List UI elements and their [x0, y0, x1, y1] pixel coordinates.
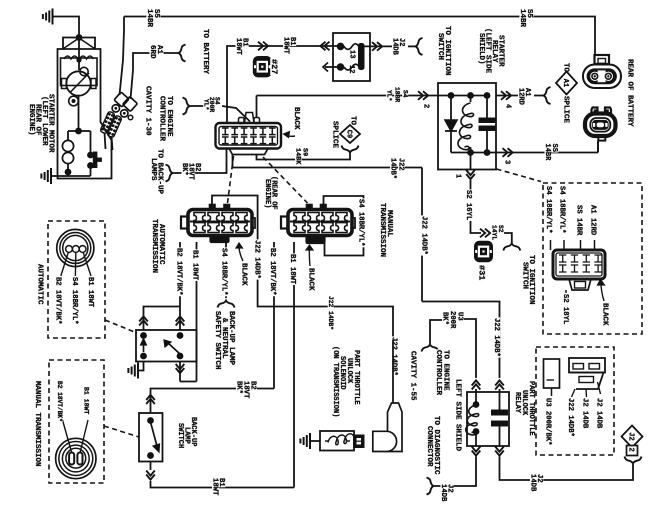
- label AUTOMATIC TRANSMISSION: [157, 223, 166, 265]
- svg-text:B1 18WT: B1 18WT: [191, 250, 199, 281]
- svg-text:3: 3: [503, 160, 511, 164]
- connector trans-2 bottom tab: [307, 237, 325, 244]
- wire S9 14BK to C9 splice: [257, 152, 351, 160]
- wire U3 to PTU relay: [464, 319, 476, 378]
- label A1 6RD: [155, 44, 164, 54]
- PTU relay coil branch: [475, 392, 477, 402]
- ignition connector lead stubs: [550, 240, 552, 250]
- label BACK-UP LAMP & NEUTRAL SAFETY SWITCH: [227, 310, 236, 365]
- svg-text:J22: J22: [397, 158, 405, 171]
- pin label 1: [454, 173, 462, 178]
- label B1 18WT bottom: [217, 477, 225, 487]
- svg-text:B2 18VT/BK*: B2 18VT/BK*: [175, 248, 183, 295]
- starter motor cable lug terminals: [114, 92, 129, 107]
- ground G3 NSS: [137, 363, 139, 379]
- hook J2 to ignition switch: [416, 38, 423, 55]
- svg-text:LEFT SIDE SHIELD: LEFT SIDE SHIELD: [454, 379, 462, 452]
- label J2 14DB right: [535, 473, 543, 483]
- label SS 14BR ign: [575, 204, 583, 236]
- svg-text:MANUAL TRANSMISSION: MANUAL TRANSMISSION: [33, 381, 41, 467]
- NSS left branch: [144, 307, 181, 331]
- label S2 18YL: [561, 293, 569, 325]
- solenoid coil: [325, 440, 328, 442]
- svg-text:J22 14DB*: J22 14DB*: [420, 216, 428, 255]
- wire S4 18BR YL C101 to starter relay: [257, 95, 439, 97]
- NSS output chevrons: [176, 364, 185, 369]
- svg-text:BK*: BK*: [441, 312, 449, 325]
- label J22 14DB* mid: [327, 295, 334, 330]
- pin-field tail wires: [105, 133, 106, 150]
- label BLACK trans-1: [240, 262, 249, 286]
- svg-text:B1 18WT: B1 18WT: [86, 277, 94, 308]
- wire S2 16YL: [471, 180, 482, 233]
- label S4 200R YL*: [214, 96, 221, 105]
- U3 connector rect: [544, 359, 560, 388]
- label J2 14DB ptu2: [595, 397, 603, 429]
- relay junction dots top: [448, 92, 455, 99]
- label PART THROTTLE UNLOCK SOLENOID (ON TRANSMISSION): [352, 349, 360, 405]
- svg-text:14DB: 14DB: [391, 38, 399, 56]
- splice #27: [254, 57, 271, 76]
- wire S4 18BR/YL trans-1 stub: [225, 242, 227, 298]
- label B1 18WT ring: [86, 276, 94, 308]
- svg-text:J2 14DB: J2 14DB: [581, 398, 589, 429]
- label B1 18WT trans-1: [191, 249, 199, 281]
- svg-text:14BR: 14BR: [145, 9, 153, 28]
- relay bottom bus: [451, 152, 496, 154]
- label S4 18BR/YL* ring: [70, 276, 78, 325]
- label CAVITY 1-55: [409, 350, 418, 401]
- label LEFT SIDE SHIELD: [454, 378, 463, 451]
- svg-text:SHIELD): SHIELD): [477, 33, 485, 65]
- wire coil bottom to ground: [67, 172, 69, 176]
- svg-text:18WT: 18WT: [282, 37, 290, 54]
- solenoid contact bar: [93, 152, 97, 168]
- hook to battery: [179, 45, 186, 62]
- svg-text:18WT: 18WT: [211, 478, 219, 496]
- automatic ring connector: [57, 229, 94, 266]
- wire S2 to ignition hook: [504, 233, 512, 243]
- relay coil: [470, 96, 472, 103]
- dashed box PTU relay connectors: [536, 347, 614, 455]
- label MANUAL TRANSMISSION: [33, 380, 42, 467]
- NSS swing arm: [167, 342, 180, 354]
- wire J22 down to relay branch: [421, 168, 423, 302]
- ground G1 top-left: [52, 9, 54, 25]
- starter motor field/brush inner box: [61, 58, 98, 86]
- dashed link C101 to automatic connector: [228, 156, 234, 203]
- pin label 3: [503, 159, 511, 164]
- neutral safety switch box: [136, 330, 197, 362]
- splice A1 marker: [562, 62, 571, 72]
- splice C9 marker: [349, 115, 358, 125]
- label J22 14DB*: [397, 157, 405, 171]
- hook C9: [342, 146, 359, 153]
- hook to diagnostic connector: [427, 478, 434, 495]
- svg-text:YL*: YL*: [203, 99, 210, 111]
- svg-text:S2 18YL: S2 18YL: [561, 294, 569, 324]
- label J2 14DB: [397, 37, 405, 47]
- svg-text:RELAY: RELAY: [513, 392, 521, 414]
- dashed link automatic to NSS: [105, 320, 137, 333]
- wire armature to solenoid junction: [78, 96, 80, 131]
- PTU relay output chevrons: [472, 446, 481, 451]
- svg-text:CONTROLLER: CONTROLLER: [158, 96, 166, 142]
- svg-text:2: 2: [422, 104, 430, 108]
- connector C101 pins: [222, 128, 229, 135]
- dashed box ignition switch connector: [543, 183, 642, 334]
- wire pin 3 SS 14BR: [496, 152, 598, 154]
- svg-text:TO BATTERY: TO BATTERY: [201, 29, 209, 75]
- svg-text:SPLICE: SPLICE: [331, 121, 339, 149]
- svg-text:CONNECTOR: CONNECTOR: [425, 426, 433, 467]
- svg-text:J22 14DB*: J22 14DB*: [253, 240, 261, 279]
- svg-text:(ON TRANSMISSION): (ON TRANSMISSION): [331, 346, 339, 417]
- wire junction to contact: [79, 130, 91, 132]
- svg-text:BK*: BK*: [235, 381, 243, 394]
- label U3 200R BK*: [456, 311, 464, 321]
- wire J22 over trans-1: [212, 196, 393, 341]
- svg-text:#27: #27: [269, 59, 279, 74]
- svg-text:12: 12: [347, 65, 355, 73]
- starter motor connector pin-field strips: [100, 111, 115, 134]
- dashed link relay to ignition box: [497, 169, 542, 182]
- svg-text:14BK: 14BK: [294, 148, 302, 165]
- starter motor lower brush circle: [69, 96, 79, 106]
- label TO ENGINE CONTROLLER: [442, 349, 451, 391]
- svg-text:14YL: 14YL: [491, 225, 498, 240]
- svg-text:CONTROLLER: CONTROLLER: [434, 350, 442, 396]
- PTU connector leaders: [572, 389, 576, 397]
- battery connector B1 (oval): [595, 55, 610, 64]
- wire pin 4 A1 12RD: [496, 95, 518, 97]
- junction dot on starter motor terminal: [76, 34, 83, 41]
- label S2 16YL: [464, 189, 472, 221]
- wire NSS to B1: [179, 362, 181, 382]
- inline connectors above PTU relay: [472, 380, 481, 385]
- fuse terminal dots: [337, 43, 345, 51]
- hook U3 to engine controller: [422, 345, 439, 352]
- svg-text:SAFETY SWITCH: SAFETY SWITCH: [213, 311, 221, 370]
- label J22 14DB* to solenoid: [390, 336, 398, 376]
- solenoid contact dots: [87, 152, 94, 159]
- label S9 14BK: [301, 147, 309, 156]
- starter solenoid pull-in coil: [62, 140, 73, 151]
- label J2 14DB diag: [446, 483, 454, 493]
- svg-text:REAR OF BATTERY: REAR OF BATTERY: [626, 59, 634, 127]
- NSS arrow contact: [143, 342, 145, 352]
- backup switch output: [150, 462, 152, 471]
- battery connector B2 bottom tab: [598, 136, 605, 141]
- backup switch arm: [151, 422, 158, 448]
- label AUTOMATIC: [36, 263, 45, 305]
- svg-text:S4 18BR/YL*: S4 18BR/YL*: [558, 186, 566, 233]
- label J22 14DB* inline 2: [492, 317, 500, 357]
- junction dot solenoid: [75, 128, 82, 135]
- connector trans-1 bottom tab: [211, 236, 229, 243]
- svg-text:18BR: 18BR: [394, 87, 401, 102]
- svg-text:ENGINE): ENGINE): [263, 179, 271, 208]
- label BLACK ignition: [601, 302, 610, 326]
- svg-text:B1 18WT: B1 18WT: [83, 387, 90, 414]
- solenoid terminal block: [354, 436, 364, 448]
- label B1 18WT manual: [83, 386, 90, 415]
- label #27: [269, 58, 279, 75]
- label J22 14DB* on trans-1 wire: [253, 239, 261, 279]
- NSS contact dots: [140, 332, 147, 339]
- starter motor brush coils: [64, 56, 78, 59]
- hook S4 200R to engine controller: [183, 98, 190, 115]
- svg-text:A1 12RD: A1 12RD: [589, 205, 597, 236]
- svg-text:AUTOMATIC: AUTOMATIC: [36, 264, 44, 305]
- svg-text:4: 4: [504, 104, 512, 108]
- wire B2 18VT BK to C101: [173, 149, 227, 173]
- svg-text:TRANSMISSION: TRANSMISSION: [378, 203, 386, 257]
- svg-text:J2 14DB: J2 14DB: [595, 398, 603, 429]
- battery connector B2 (square): [592, 108, 598, 116]
- svg-text:6RD: 6RD: [148, 45, 156, 59]
- PTU relay contact branch: [499, 392, 501, 410]
- wire B1 18WT to fuse: [227, 46, 340, 123]
- connector trans-2 (manual) body: [288, 210, 352, 236]
- label BLACK C101: [292, 106, 301, 130]
- wire B1 18WT bottom run: [151, 481, 295, 488]
- connector trans-2 top tabs: [307, 205, 313, 211]
- svg-text:ENGINE): ENGINE): [27, 104, 35, 136]
- label (REAR OF ENGINE): [270, 175, 278, 210]
- label A1 12RD ign: [589, 204, 597, 236]
- svg-text:S4 18BR/YL*: S4 18BR/YL*: [544, 186, 552, 233]
- svg-text:S4: S4: [402, 90, 409, 98]
- svg-text:SPLICE: SPLICE: [562, 96, 570, 124]
- svg-text:SWITCH: SWITCH: [521, 262, 529, 289]
- svg-text:1: 1: [454, 174, 462, 178]
- label S4 18BR/YL* loop: [357, 198, 365, 247]
- pin label 2: [422, 103, 430, 108]
- wire B2 18VT/BK trans-2 down: [273, 242, 275, 389]
- label A1 12RD: [523, 87, 531, 97]
- svg-text:TRANSMISSION: TRANSMISSION: [150, 219, 158, 273]
- label TO IGNITION SWITCH: [443, 25, 452, 76]
- svg-text:13: 13: [348, 50, 356, 58]
- svg-text:C9: C9: [344, 130, 352, 138]
- svg-text:J22 14DB*: J22 14DB*: [492, 318, 500, 357]
- fuse 13 box: [333, 33, 370, 81]
- svg-text:BK*: BK*: [180, 163, 188, 176]
- hook B2 to back-up lamps: [166, 165, 173, 182]
- label B2 18VT/BK* trans-1: [175, 247, 183, 296]
- svg-text:18WT: 18WT: [234, 38, 242, 55]
- splice J2 marker: [622, 426, 643, 448]
- wire S5 14BR lug to top rail: [120, 17, 125, 96]
- ignition switch connector body: [553, 250, 605, 279]
- svg-text:2: 2: [627, 448, 635, 452]
- svg-text:B1 18WT: B1 18WT: [288, 254, 296, 285]
- label S4 18BR/YL* ign B: [558, 185, 566, 234]
- wire A1 6RD lug to battery hook: [131, 53, 179, 99]
- wire J2 14DB to diagnostic: [434, 457, 476, 487]
- label SS 14BR: [550, 143, 558, 153]
- dashed box manual connector: [49, 360, 104, 483]
- wire S5 14BR top rail to battery connector: [124, 17, 595, 55]
- svg-text:BLACK: BLACK: [307, 268, 315, 291]
- label B1 18WT trans-2: [288, 253, 296, 285]
- wire contact to case bottom: [90, 166, 92, 177]
- wire to solenoid coil: [68, 130, 79, 132]
- connector C101 bottom tab: [229, 149, 268, 155]
- svg-text:S4 18BR/YL*: S4 18BR/YL*: [220, 248, 228, 295]
- part throttle unlock solenoid box: [320, 431, 354, 451]
- ring connector pins: [66, 246, 73, 253]
- inline connector pin 2: [418, 91, 423, 100]
- svg-text:14BR: 14BR: [518, 9, 526, 28]
- svg-text:A1: A1: [561, 79, 569, 87]
- starter relay box: [438, 83, 496, 170]
- svg-text:BLACK: BLACK: [240, 263, 248, 286]
- wire B2 18VT BK backup lamp switch row: [151, 389, 275, 406]
- svg-text:CAVITY 1-30: CAVITY 1-30: [144, 86, 152, 136]
- back-up lamp switch box: [139, 413, 163, 462]
- label J2 14DB ptu1: [581, 397, 589, 429]
- svg-text:S2 16YL: S2 16YL: [464, 190, 472, 220]
- wire J2 14DB to J2 splice: [500, 457, 634, 481]
- starter motor brushes: [62, 79, 67, 89]
- wire S4 jumper loop trans-2: [324, 196, 364, 256]
- manual ring leaders: [63, 420, 72, 452]
- label B1 18WT 2: [288, 36, 296, 46]
- splice #31: [475, 242, 492, 261]
- svg-text:J22 14DB*: J22 14DB*: [327, 296, 334, 330]
- label B2 18VT/BK* ring: [53, 276, 61, 325]
- svg-text:14DB*: 14DB*: [389, 158, 397, 179]
- label S4 18BR/YL* trans-1: [220, 247, 228, 296]
- hook J2 splice: [625, 457, 642, 464]
- pin label 4: [504, 103, 512, 108]
- svg-text:12RD: 12RD: [517, 88, 525, 105]
- svg-text:CAVITY 1-55: CAVITY 1-55: [409, 351, 417, 401]
- svg-text:14DB: 14DB: [529, 474, 537, 492]
- connector trans-1 top tabs: [210, 205, 216, 211]
- label TO ENGINE CONTROLLER CAVITY 1-30: [165, 95, 174, 137]
- ignition connector bottom tab: [569, 279, 591, 290]
- svg-text:14BR: 14BR: [543, 144, 551, 162]
- label S4 18BR YL*: [402, 89, 409, 98]
- label #31: [477, 264, 487, 281]
- PTU relay connector 3-pin: [569, 358, 605, 373]
- junction dot coil bottom: [65, 169, 72, 176]
- svg-text:J22 14DB*: J22 14DB*: [566, 398, 574, 437]
- hook A1 to splice: [544, 87, 551, 104]
- dashed link C101 to manual connector: [263, 157, 308, 203]
- ground G4 solenoid: [309, 433, 311, 449]
- wire J22 14DB C101 to corner: [233, 155, 423, 168]
- svg-text:YL*: YL*: [386, 90, 393, 102]
- label BLACK trans-2: [307, 267, 316, 291]
- label STARTER RELAY (LEFT SIDE SHIELD): [497, 34, 506, 67]
- svg-text:BLACK: BLACK: [601, 303, 609, 326]
- svg-text:SWITCH: SWITCH: [436, 33, 444, 60]
- wire ground to solenoid: [310, 440, 320, 442]
- label S4 18BR/YL* ign A: [544, 185, 552, 234]
- inline connector above backup switch: [146, 395, 155, 400]
- wire battery conn2 down: [597, 142, 599, 153]
- svg-text:B2 18VT/BK*: B2 18VT/BK*: [268, 248, 276, 295]
- label S5 14BR right: [525, 8, 534, 18]
- small ring terminal end: [128, 115, 133, 120]
- svg-text:SS 14BR: SS 14BR: [575, 205, 583, 236]
- wire motor terminal to armature: [78, 38, 80, 71]
- label B2 18VT/BK* manual: [56, 380, 63, 422]
- label J22 14DB* ptu: [566, 397, 574, 437]
- fuse bus bar: [359, 44, 365, 70]
- fuse lower stub: [325, 66, 341, 68]
- wire B1 18WT trans-1 to NSS: [196, 242, 198, 382]
- inline connector B1: [258, 42, 263, 51]
- label U3 200R/BK*: [544, 397, 552, 446]
- svg-text:B2 18VT/BK*: B2 18VT/BK*: [56, 381, 63, 422]
- dashed box automatic connector: [48, 221, 105, 338]
- svg-text:B2 18VT/BK*: B2 18VT/BK*: [53, 277, 61, 324]
- wire U3 200R BK: [430, 320, 442, 344]
- PTU relay box: [467, 392, 509, 446]
- label REAR OF BATTERY: [626, 58, 635, 127]
- label J22 14DB* inline: [420, 215, 428, 255]
- wire S2 18YL stub: [565, 290, 567, 293]
- svg-text:U3 200R/BK*: U3 200R/BK*: [544, 398, 552, 445]
- inline connectors NSS top: [139, 316, 148, 321]
- wire S4 200R YL to C101: [190, 105, 204, 107]
- svg-text:LAMPS: LAMPS: [149, 158, 157, 181]
- label B2 18VT BK*: [193, 162, 201, 172]
- fuse element: [344, 44, 360, 50]
- label B1 18WT: [241, 37, 249, 47]
- svg-text:TO: TO: [562, 63, 570, 73]
- starter motor armature circle: [66, 71, 90, 95]
- svg-text:J2: J2: [626, 432, 634, 440]
- label STARTER MOTOR (LEFT LOWER REAR OF ENGINE): [47, 93, 56, 153]
- NSS ground wire: [139, 362, 144, 371]
- hook S2 to ignition switch: [503, 244, 520, 251]
- label S5 14BR left: [152, 8, 161, 18]
- ground G2 starter motor: [50, 168, 52, 184]
- svg-text:BLACK: BLACK: [292, 107, 300, 130]
- ring pin leaders: [61, 252, 69, 276]
- label TO BACK-UP LAMPS: [156, 148, 165, 194]
- inline connector at fuse: [320, 42, 325, 51]
- label TO DIAGNOSTIC CONNECTOR: [432, 415, 441, 475]
- svg-text:#31: #31: [477, 265, 487, 280]
- wire B1 18WT trans-2 down: [293, 242, 295, 488]
- label MANUAL TRANSMISSION: [385, 209, 394, 237]
- label TO IGNITION SWITCH 2: [527, 254, 536, 305]
- label TO BATTERY: [201, 28, 210, 74]
- relay diode: [450, 96, 452, 121]
- starter motor outline: [63, 38, 95, 50]
- manual ring pins: [69, 453, 74, 465]
- wire fuse to J2 hook: [364, 45, 392, 47]
- inline connector S2: [480, 229, 485, 238]
- backup switch dots: [147, 417, 154, 424]
- connector trans-1 (automatic) body: [188, 210, 252, 236]
- relay pin1 chevrons: [466, 170, 475, 175]
- svg-text:S4 18BR/YL*: S4 18BR/YL*: [357, 199, 365, 246]
- relay pin1 wire down: [470, 153, 472, 170]
- wire J22 across to PTU relay: [422, 302, 500, 379]
- label B2 18VT/BK* trans-2: [268, 247, 276, 296]
- solenoid boot connector: [388, 403, 403, 452]
- dashed link manual to backup switch: [104, 426, 139, 437]
- label S2 14YL: [497, 224, 504, 233]
